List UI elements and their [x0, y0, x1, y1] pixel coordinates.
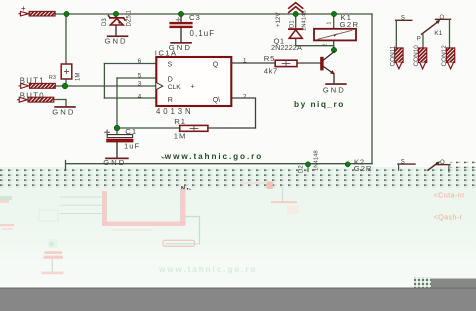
label K2 [354, 157, 365, 166]
label 2N2222A [271, 43, 302, 52]
svg-text:R1: R1 [174, 117, 186, 126]
svg-text:4k7: 4k7 [264, 67, 278, 76]
label C1 [125, 127, 137, 136]
svg-text:D3: D3 [102, 18, 108, 26]
label 1uF [124, 141, 140, 150]
svg-text:GND: GND [103, 158, 126, 167]
wire BUT0 to ground [55, 100, 66, 107]
svg-text:1M: 1M [76, 73, 82, 81]
connector BUT0 plug [18, 97, 54, 102]
svg-text:<Cuta‑nr: <Cuta‑nr [434, 191, 466, 200]
ground under D3 [105, 35, 129, 45]
wire Q\ pin 2 loop [232, 98, 256, 128]
contact label O of K1 [440, 15, 445, 21]
node junction on rail at D3 [113, 11, 118, 16]
resistor R5 4k7 [275, 60, 297, 66]
wire D feedback vertical [116, 78, 118, 128]
relay K2 contact set remnants [398, 161, 450, 172]
svg-text:2N2222A: 2N2222A [271, 43, 302, 52]
ground under C3 [169, 42, 192, 52]
label BUT1 [20, 76, 45, 85]
wire C1 bottom lead [116, 142, 118, 157]
connector CON12 [446, 48, 454, 69]
node junction on rail at K1 [331, 11, 336, 16]
label R3 [49, 75, 56, 81]
svg-text:R3: R3 [49, 75, 56, 81]
ground under BUT0 [52, 106, 76, 116]
svg-text:O: O [440, 15, 445, 21]
relay K1 contact set S-P-O [396, 19, 451, 48]
svg-text:1: 1 [243, 57, 247, 64]
pin number 4 [138, 94, 142, 101]
svg-text:G2R: G2R [354, 164, 373, 173]
ghost orange text right 2 [434, 213, 463, 222]
svg-text:CON11: CON11 [389, 45, 396, 66]
svg-text:6: 6 [138, 58, 142, 65]
node junction on rail at C3 [178, 11, 183, 16]
node junction at K2 on bottom rail [345, 162, 350, 167]
svg-text:1M: 1M [174, 132, 187, 141]
wire D1 leads [296, 14, 334, 50]
pin name S [168, 62, 173, 69]
svg-text:O: O [440, 160, 445, 166]
svg-text:D1: D1 [289, 20, 295, 28]
diode D3 zener [109, 16, 126, 25]
connector CON11 [395, 48, 403, 69]
ghost D2 area remnants [240, 182, 299, 215]
wire to pin 6 S [104, 63, 156, 65]
contact label O of K2 [440, 160, 445, 166]
wire right drop from rail to K2 row [371, 14, 373, 164]
label IC1A [155, 48, 178, 57]
pin name D [168, 76, 173, 83]
pin number 1 [243, 57, 247, 64]
diode D1 1N4148 [289, 29, 302, 38]
pin number 6 [138, 58, 142, 65]
pin number 2 of K1 coil [323, 44, 329, 47]
ground under C1 [103, 158, 129, 167]
label 0,1uF [190, 29, 216, 38]
node junction at Q1 collector [331, 47, 336, 52]
label by niq_ro [294, 99, 345, 109]
ghost left edge smudges [0, 196, 58, 248]
label D3 [102, 18, 108, 26]
svg-text:Q: Q [213, 61, 219, 68]
svg-text:S: S [401, 15, 405, 21]
svg-text:BUT0: BUT0 [20, 91, 45, 100]
pin number 5 [138, 73, 142, 80]
svg-text:3: 3 [138, 81, 142, 88]
svg-text:by niq_ro: by niq_ro [294, 99, 345, 109]
wire +12V top rail [55, 13, 372, 15]
label CON10 [413, 45, 420, 67]
node junction at D input / C1 / R1 [114, 125, 120, 131]
label G2R coil K1 [340, 20, 360, 29]
svg-text:S: S [168, 62, 173, 69]
label DZ5 value [127, 9, 133, 26]
label CON12 [441, 45, 448, 67]
wire D3 leads [115, 14, 117, 35]
resistor R3 1M vertical [61, 64, 72, 79]
label 4k7 [264, 67, 278, 76]
power +12V symbol [289, 3, 303, 13]
ground under Q1 [323, 83, 347, 94]
svg-text:R: R [168, 97, 173, 104]
svg-text:GND: GND [105, 36, 128, 45]
IC1A 4013N flip-flop box [156, 57, 231, 106]
svg-text:C1: C1 [125, 127, 137, 136]
connector CON10 [418, 48, 426, 69]
label 4013N [156, 107, 193, 116]
label 1M of R3 [76, 73, 82, 81]
wire Q pin 1 to R5 [232, 62, 275, 64]
svg-text:1N4148: 1N4148 [302, 10, 308, 31]
capacitor C1 polarized [105, 130, 134, 142]
ghost pink U of IC box [102, 189, 186, 231]
svg-text:D: D [168, 76, 173, 83]
label Q1 [274, 36, 285, 45]
contact label S of K1 [401, 15, 405, 21]
svg-text:GND: GND [323, 85, 346, 94]
label R5 [264, 54, 275, 63]
label D1 [289, 20, 295, 28]
label G2R of K2 [354, 164, 373, 173]
label +12V [275, 12, 282, 27]
pin name R [168, 97, 173, 104]
svg-text:G2R: G2R [340, 20, 360, 29]
wire R1 right to loop [208, 127, 256, 129]
wire K1 coil pins [333, 14, 335, 50]
svg-text:BUT1: BUT1 [20, 76, 45, 85]
wire to pin 5 D [117, 77, 156, 79]
pin name Q\ [213, 97, 220, 104]
svg-text:IC1A: IC1A [155, 48, 178, 57]
svg-text:DZ5.1: DZ5.1 [127, 9, 133, 26]
wire R3 top lead [65, 14, 67, 64]
label 1N4148 of D1 [302, 10, 308, 31]
artifact small dark mark Ni [181, 186, 191, 192]
svg-text:5: 5 [138, 73, 142, 80]
svg-text:+: + [21, 4, 26, 13]
wire Q1 emitter to ground [333, 74, 335, 84]
svg-text:www.tahnic.go.ro: www.tahnic.go.ro [164, 152, 263, 161]
connector BUT1 plug [19, 83, 55, 88]
svg-text:CON12: CON12 [441, 45, 448, 67]
svg-text:1: 1 [327, 22, 333, 25]
svg-text:2: 2 [243, 94, 247, 101]
label www.tahnic.go.ro [162, 152, 264, 161]
svg-text:0,1uF: 0,1uF [190, 29, 216, 38]
node junction at D2 on bottom rail [305, 162, 310, 172]
svg-text:GND: GND [52, 108, 75, 117]
ghost grey stub lines left of U [60, 197, 102, 214]
capacitor C3 [169, 18, 192, 28]
wire node to R1 left [117, 127, 180, 129]
wire R3 bottom lead [65, 79, 67, 86]
label BUT0 [20, 91, 45, 100]
wire bottom rail [66, 161, 373, 171]
svg-text:1N4148: 1N4148 [314, 150, 320, 171]
svg-text:4: 4 [138, 94, 142, 101]
transistor Q1 2N2222A [320, 52, 334, 75]
wire S-R bus vertical [103, 64, 105, 99]
relay K1 coil [314, 29, 356, 41]
svg-text:C3: C3 [189, 13, 201, 22]
svg-text:P: P [417, 37, 421, 43]
svg-text:+: + [191, 84, 195, 91]
svg-text:4013N: 4013N [156, 107, 193, 116]
wire to pin 4 R [104, 97, 156, 99]
label CON11 [389, 45, 396, 66]
pin number 3 [138, 81, 142, 88]
label 1M of R1 [174, 132, 187, 141]
svg-text:CLK: CLK [168, 84, 181, 91]
wire BUT1 to CLK pin 3 [55, 85, 156, 87]
ghost orange text right 1 [434, 191, 466, 200]
label + of power connector [21, 4, 26, 13]
resistor R1 1M [180, 125, 208, 131]
contact label S of K2 [401, 160, 405, 166]
label K1 contact [434, 30, 442, 37]
svg-text:CON10: CON10 [413, 45, 420, 67]
label K1 coil [341, 13, 352, 22]
ghost capacitor C2 remnants [42, 242, 64, 275]
svg-text:Q\: Q\ [213, 97, 220, 104]
node junction on rail at R3 [64, 11, 69, 16]
ghost green web text [158, 265, 257, 274]
svg-text:www.tahnic.go.ro: www.tahnic.go.ro [158, 265, 257, 274]
ghost green feedback path [163, 217, 200, 247]
pin name Q [213, 61, 219, 68]
svg-text:2: 2 [323, 44, 329, 47]
node junction at BUT1 [62, 83, 68, 89]
svg-text:1uF: 1uF [124, 141, 140, 150]
label 1N4148 of D2 [314, 150, 320, 171]
svg-text:S: S [401, 160, 405, 166]
node junction on rail at +12V [293, 11, 298, 16]
svg-text:R5: R5 [264, 54, 275, 63]
svg-text:<Qash‑r: <Qash‑r [434, 213, 463, 222]
pin name CLK [168, 84, 195, 91]
wire R5 to base [297, 62, 320, 64]
label C3 [189, 13, 201, 22]
wire C1 top lead [116, 128, 118, 135]
wire C3 leads [180, 14, 182, 42]
label R1 [174, 117, 186, 126]
pin number 1 of K1 coil [327, 22, 333, 25]
pin number 2 [243, 94, 247, 101]
label D2 [299, 165, 305, 173]
BACKGROUND LAYERS (decorative) [0, 0, 476, 170]
svg-text:D2: D2 [299, 165, 305, 173]
svg-text:+12V: +12V [275, 12, 282, 27]
contact label P of K1 [417, 37, 421, 43]
connector X1 power input plug [19, 11, 55, 16]
svg-text:K1: K1 [434, 30, 442, 37]
